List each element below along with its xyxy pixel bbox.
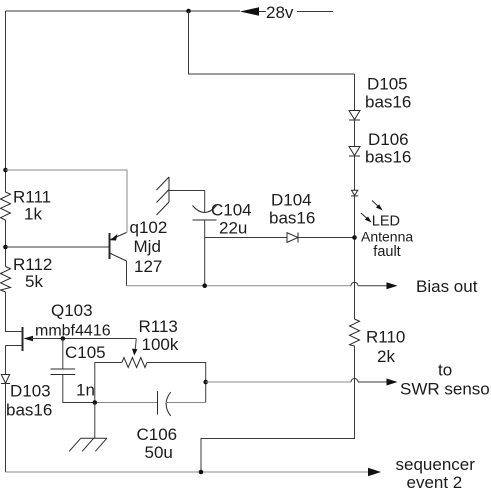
svg-text:bas16: bas16 bbox=[365, 93, 411, 112]
diode D106 bbox=[349, 147, 360, 157]
resistor R113 bbox=[122, 358, 147, 368]
wire hop over right rail (SWR) bbox=[351, 379, 358, 383]
wire rail D105-D106 bbox=[354, 120, 356, 147]
node gate/C105 (62.8,338.5) bbox=[61, 336, 66, 341]
wire rail D106-LED bbox=[354, 156, 356, 190]
resistor R110 bbox=[350, 319, 360, 346]
wire left rail upper bbox=[5, 11, 7, 192]
svg-text:1k: 1k bbox=[24, 205, 42, 224]
diode LED antenna fault bbox=[351, 190, 358, 196]
node R111 top (5.5,170) bbox=[3, 168, 8, 173]
wire feedback loop top right side bbox=[147, 363, 206, 403]
node C104 bottom (204.7,285.7) bbox=[202, 283, 207, 288]
wire emitter net / Bias out bbox=[127, 285, 352, 287]
node bottom rail (201,472) bbox=[199, 470, 204, 475]
svg-text:C106: C106 bbox=[137, 425, 178, 444]
svg-text:127: 127 bbox=[134, 257, 162, 276]
wire hop over right rail (bias out) bbox=[351, 282, 358, 286]
svg-text:fault: fault bbox=[373, 244, 400, 260]
wire SWR sensor net bbox=[206, 381, 351, 383]
diode D105 bbox=[349, 111, 360, 121]
wire to lower ground bbox=[94, 403, 96, 439]
resistor R112 bbox=[1, 267, 11, 293]
capacitor C104 bbox=[193, 206, 217, 221]
svg-text:bas16: bas16 bbox=[365, 148, 411, 167]
wire SWR stub and arrow bbox=[358, 379, 398, 386]
wire rail LED to R110 bbox=[354, 196, 356, 319]
node base net (5.5,247) bbox=[3, 245, 8, 250]
svg-text:5k: 5k bbox=[25, 272, 43, 291]
wire ground to C104 top bbox=[169, 191, 205, 213]
svg-text:28v: 28v bbox=[266, 3, 294, 22]
svg-text:2k: 2k bbox=[377, 347, 395, 366]
svg-text:R110: R110 bbox=[366, 328, 405, 347]
svg-text:Mjd: Mjd bbox=[134, 237, 161, 256]
diode D104 bbox=[287, 233, 355, 243]
wire D104 tap from C104 net bbox=[205, 237, 287, 239]
node SWR tap (205.7,382) bbox=[203, 380, 208, 385]
wire right rail top segment bbox=[354, 74, 356, 111]
svg-text:D105: D105 bbox=[367, 75, 408, 94]
svg-text:Antenna: Antenna bbox=[361, 229, 413, 245]
svg-text:Bias out: Bias out bbox=[416, 277, 478, 296]
wire from top node down and right to diode chain bbox=[189, 11, 355, 74]
LED light arrow 2 bbox=[361, 213, 372, 223]
svg-text:bas16: bas16 bbox=[269, 209, 315, 228]
wire collector net: from left node to q102 collector bbox=[6, 170, 128, 233]
svg-text:SWR sensor: SWR sensor bbox=[400, 380, 491, 399]
wire bottom rail sequencer bbox=[6, 471, 369, 473]
svg-text:event 2: event 2 bbox=[407, 473, 463, 492]
wire top 28v rail bbox=[6, 10, 241, 12]
svg-text:R113: R113 bbox=[139, 317, 178, 336]
wire C104 bottom down to emitter net bbox=[204, 220, 206, 286]
svg-text:mmbf4416: mmbf4416 bbox=[35, 323, 111, 340]
svg-text:22u: 22u bbox=[219, 219, 247, 238]
ground chassis lower bbox=[69, 438, 107, 451]
resistor R111 bbox=[1, 192, 11, 220]
wire Q103 source down to D103 bbox=[5, 346, 7, 375]
svg-text:LED: LED bbox=[372, 214, 400, 230]
svg-text:sequencer: sequencer bbox=[396, 455, 476, 474]
wire left rail between R111 and R112 bbox=[5, 220, 7, 267]
arrow sequencer event 2 bbox=[368, 468, 381, 476]
LED light arrow 1 bbox=[372, 201, 383, 211]
svg-text:Q103: Q103 bbox=[51, 301, 93, 320]
svg-text:to: to bbox=[438, 361, 452, 380]
svg-text:C105: C105 bbox=[65, 343, 106, 362]
svg-text:C104: C104 bbox=[211, 201, 252, 220]
wire R113 wiper arrow bbox=[132, 339, 138, 356]
arrow 28v feed (points left) bbox=[240, 7, 333, 15]
svg-text:1n: 1n bbox=[76, 381, 95, 400]
svg-text:100k: 100k bbox=[142, 335, 179, 354]
capacitor C105 bbox=[51, 339, 95, 403]
svg-text:D103: D103 bbox=[10, 382, 51, 401]
wire loop bottom left segment bbox=[95, 402, 158, 404]
transistor q102 bbox=[110, 233, 127, 286]
wire feedback loop left side bbox=[95, 363, 122, 403]
svg-text:q102: q102 bbox=[130, 218, 168, 237]
wire rail below R110 to bottom bbox=[201, 346, 355, 472]
wire loop bottom right segment bbox=[166, 402, 206, 404]
wire base of q102 bbox=[6, 246, 110, 248]
node D104 to rail (354.5,237.5) bbox=[352, 235, 357, 240]
wire D103 to bottom rail bbox=[5, 384, 7, 473]
svg-text:bas16: bas16 bbox=[6, 401, 52, 420]
wire left rail below R112 to Q103 drain bbox=[6, 292, 23, 332]
svg-text:50u: 50u bbox=[145, 443, 173, 462]
capacitor C106 bbox=[158, 391, 171, 416]
node junction top (188.5,11) bbox=[186, 9, 191, 14]
ground chassis upper (at C104) bbox=[157, 177, 170, 215]
node ground/loop (94.8,402.5) bbox=[93, 400, 98, 405]
svg-text:D104: D104 bbox=[271, 191, 312, 210]
wire bias out stub and arrow bbox=[358, 282, 398, 289]
svg-text:D106: D106 bbox=[368, 130, 409, 149]
transistor Q103 JFET bbox=[6, 327, 137, 351]
diode D103 bbox=[1, 375, 10, 384]
